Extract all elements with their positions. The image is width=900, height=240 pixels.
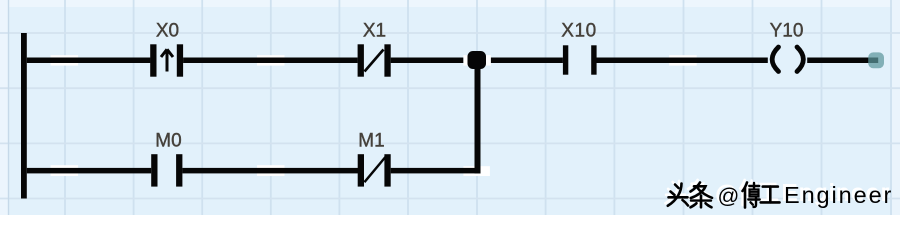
- label Y10: [770, 21, 804, 42]
- wire segment highlight (rung2 corner at grid 477): [463, 166, 490, 176]
- svg-text:M1: M1: [358, 131, 384, 152]
- wire rung1: node to X10: [491, 58, 563, 64]
- wire rung1: X1 to node area: [391, 58, 464, 64]
- contact X10 (normally open): [563, 45, 597, 74]
- wire rung1: X0 to X1: [183, 58, 358, 64]
- left power rail: [21, 33, 27, 199]
- label X10: [561, 21, 597, 42]
- wire segment highlight (rung1 node at grid 477): [463, 55, 491, 65]
- svg-text:M0: M0: [155, 131, 181, 152]
- wire: vertical branch from node to rung2: [475, 58, 481, 173]
- svg-text:Y10: Y10: [770, 21, 804, 42]
- contact X0 (rising edge pulse): [150, 44, 183, 76]
- contact M1 (normally closed): [358, 154, 391, 186]
- contact X1 (normally closed): [358, 44, 391, 76]
- svg-text:X10: X10: [561, 21, 597, 42]
- label X1: [363, 21, 386, 42]
- wire segment highlight (rung2 at grid 270.8): [257, 165, 285, 176]
- label M0: [155, 131, 181, 152]
- watermark 头条 @傅工Engineer: [665, 179, 893, 208]
- wire segment highlight (rung1 at grid 270.8): [257, 55, 285, 65]
- wire rung2: M0 to M1: [182, 168, 358, 174]
- svg-text:Engineer: Engineer: [784, 182, 893, 208]
- wire rung2: rail to M0: [27, 168, 151, 174]
- wire end marker (teal handle): [868, 52, 884, 68]
- wire rung2: M1 to branch corner: [391, 168, 481, 174]
- wire rung1: X10 to coil Y10: [597, 58, 768, 64]
- wire segment highlight (rung2 at grid 64.3): [51, 165, 79, 176]
- wire rung1: rail to X0: [27, 58, 151, 64]
- node junction: [468, 51, 487, 69]
- wire segment highlight (rung1 at grid 64.3): [51, 55, 79, 65]
- contact M0 (normally open): [151, 154, 182, 186]
- coil Y10: [772, 47, 803, 72]
- wire segment highlight (rung1 at grid 683): [669, 55, 697, 65]
- svg-text:X0: X0: [156, 21, 179, 42]
- label X0: [156, 21, 179, 42]
- svg-text:X1: X1: [363, 21, 386, 42]
- label M1: [358, 131, 384, 152]
- wire rung1: coil to end marker: [807, 58, 878, 64]
- svg-text:@: @: [718, 184, 740, 208]
